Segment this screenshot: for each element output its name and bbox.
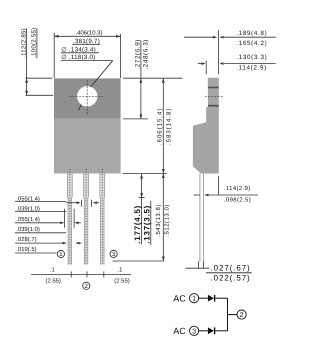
svg-text:.028(.7): .028(.7) <box>16 236 36 243</box>
svg-text:.406(10.3): .406(10.3) <box>76 30 103 37</box>
pin number 2 <box>83 282 90 290</box>
svg-text:.583(14.8): .583(14.8) <box>166 108 173 145</box>
lead 3 <box>100 169 105 265</box>
svg-text:∅ .118(3.0): ∅ .118(3.0) <box>61 54 95 61</box>
svg-text:.381(9.7): .381(9.7) <box>73 38 100 45</box>
svg-text:.512(13.0): .512(13.0) <box>163 204 170 237</box>
dimension .114(2.9)/.098(2.5) lead position <box>193 176 258 195</box>
package front view body <box>54 119 121 174</box>
svg-text:.189(4.8): .189(4.8) <box>236 30 267 37</box>
extension line lead tips <box>113 260 165 262</box>
diode D1 <box>208 295 215 302</box>
dimension .406(10.3)/.381(9.7) body width <box>54 33 120 78</box>
svg-text:.165(4.2): .165(4.2) <box>236 40 267 47</box>
side view lead <box>200 174 204 263</box>
svg-text:.100(2.55): .100(2.55) <box>30 28 37 58</box>
svg-text:.137(3.5): .137(3.5) <box>142 205 151 244</box>
svg-text:.039(1.0): .039(1.0) <box>16 226 40 233</box>
diode D2 <box>208 327 215 334</box>
svg-text:.543(13.8): .543(13.8) <box>155 204 162 237</box>
lead 2 <box>84 169 89 265</box>
junction vertical wire <box>227 298 229 331</box>
wire node3 to diode D2 <box>199 330 208 332</box>
wire junction to node 2 <box>228 314 237 316</box>
mounting hole <box>77 86 97 106</box>
pin number 1 <box>57 250 64 258</box>
svg-text:3: 3 <box>192 328 196 335</box>
svg-text:.130(3.3): .130(3.3) <box>236 54 267 61</box>
pin number 3 <box>110 250 117 258</box>
svg-text:.606(15.4): .606(15.4) <box>157 108 164 145</box>
svg-text:.114(2.9): .114(2.9) <box>236 65 267 72</box>
side view tab groove bottom <box>208 105 219 107</box>
svg-text:∅ .134(3.4): ∅ .134(3.4) <box>61 46 96 53</box>
dimension .130(3.3)/.114(2.9) <box>198 63 276 65</box>
extension line body bottom <box>123 173 167 175</box>
side view hole centerline <box>205 95 223 97</box>
hole leader line <box>91 61 113 87</box>
node 1 <box>190 294 199 303</box>
dimension .606(15.4)/.583(14.8) body height and .543/.512 lead length shared line <box>162 78 164 261</box>
svg-text:.055(1.4): .055(1.4) <box>16 216 40 223</box>
lead spacing ticks <box>70 271 72 277</box>
svg-text:.098(2.5): .098(2.5) <box>224 196 251 203</box>
wire node1 to diode D1 <box>199 297 208 299</box>
svg-text:(2.55): (2.55) <box>46 278 61 285</box>
svg-text:.272(6.9): .272(6.9) <box>135 39 142 70</box>
dimension .189(4.8)/.165(4.2) <box>184 30 276 74</box>
dimension .177(4.5)/.137(3.5) lead shoulder <box>141 174 143 245</box>
svg-text:.248(6.3): .248(6.3) <box>142 39 149 70</box>
lead 1 <box>67 169 72 265</box>
wire D2 to junction <box>215 330 227 332</box>
svg-text:.114(2.9): .114(2.9) <box>224 185 251 192</box>
node 2 <box>237 310 246 319</box>
dimension .272(6.9)/.248(6.3) tab height <box>123 77 183 79</box>
side view tab groove top <box>208 87 219 89</box>
svg-text:(2.55): (2.55) <box>114 278 129 285</box>
package front view tab <box>54 78 121 118</box>
svg-text:.1: .1 <box>118 267 123 274</box>
svg-text:.1: .1 <box>50 267 55 274</box>
side view body profile <box>193 78 219 174</box>
svg-text:1: 1 <box>192 296 196 303</box>
svg-text:.027(.67): .027(.67) <box>211 264 251 273</box>
hole centerline horizontal <box>70 95 106 97</box>
svg-text:.022(.57): .022(.57) <box>211 273 251 282</box>
lead spacing baseline <box>31 273 131 275</box>
svg-text:.177(4.5): .177(4.5) <box>133 205 142 244</box>
node 3 <box>190 326 199 335</box>
svg-text:AC: AC <box>173 326 186 336</box>
svg-text:AC: AC <box>173 294 186 304</box>
svg-text:.019(.5): .019(.5) <box>16 246 36 253</box>
wire D1 to junction <box>215 297 227 299</box>
svg-text:2: 2 <box>240 312 244 319</box>
dimension .027(.67)/.022(.57) lead thickness <box>185 261 209 268</box>
hole centerline vertical <box>86 80 88 116</box>
